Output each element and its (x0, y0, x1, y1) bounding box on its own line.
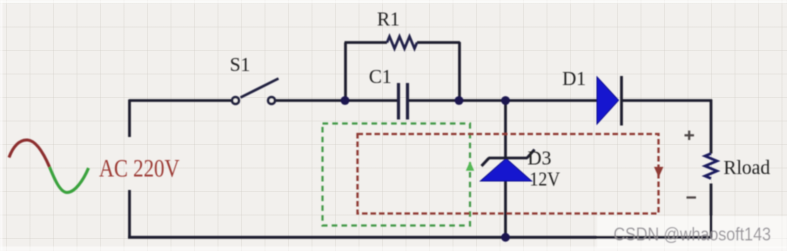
wire right vertical upper (corner to Rload) (710, 100, 713, 154)
node D (zener to bottom rail) (501, 233, 510, 242)
wire D1 cathode to top-right corner (621, 99, 712, 102)
wire R1 branch right horizontal (417, 41, 460, 44)
wire left vertical upper segment (128, 100, 131, 138)
resistor R1 (387, 37, 417, 49)
red arrow (down) (654, 167, 663, 177)
node B (455, 96, 464, 105)
svg-text:S1: S1 (230, 55, 251, 76)
dashed green loop (323, 124, 471, 226)
wire R1 branch left horizontal (345, 41, 388, 44)
wire C1 right plate to node B (409, 99, 459, 102)
AC source sine wave (9, 140, 89, 193)
wire zener branch upper (504, 100, 507, 158)
light band behind watermark (597, 216, 787, 248)
wire bottom rail (128, 236, 712, 239)
svg-text:12V: 12V (530, 170, 561, 191)
dashed red loop (358, 134, 659, 214)
wire R1 branch right riser (458, 42, 461, 100)
wire zener branch lower (504, 180, 507, 237)
resistor Rload (705, 154, 717, 179)
svg-text:AC 220V: AC 220V (99, 154, 180, 183)
svg-text:CSDN @whaosoft143: CSDN @whaosoft143 (614, 225, 772, 245)
wire switch to node A (276, 99, 345, 102)
page edge light strips (decorative) (0, 0, 787, 4)
green arrow (up) (466, 161, 474, 171)
svg-text:D3: D3 (528, 149, 552, 170)
wire top-left horizontal (left corner to switch) (129, 99, 232, 102)
wire right vertical lower (Rload to bottom corner) (710, 184, 713, 239)
svg-text:R1: R1 (377, 10, 400, 31)
capacitor C1 (399, 83, 408, 120)
svg-text:Rload: Rload (724, 158, 771, 179)
zener diode D3 (481, 150, 535, 182)
svg-text:D1: D1 (562, 69, 586, 90)
wire node B to D1 anode (459, 99, 597, 102)
wire left vertical lower segment (128, 190, 131, 238)
wire node A to C1 left plate (345, 99, 397, 102)
node A (341, 96, 350, 105)
switch S1 (232, 79, 278, 104)
svg-text:C1: C1 (369, 67, 392, 88)
label plus (685, 131, 695, 140)
diode D1 (597, 76, 622, 126)
label minus (687, 196, 697, 198)
node C (501, 96, 510, 105)
wire R1 branch left riser (344, 43, 347, 101)
